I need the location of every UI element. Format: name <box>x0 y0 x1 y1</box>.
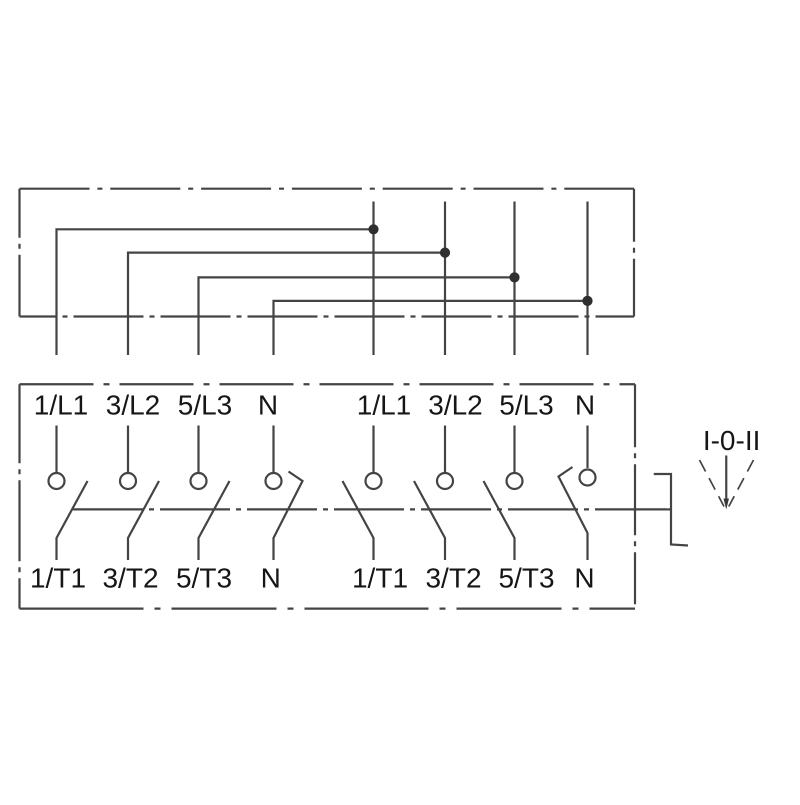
wire drop to pole 5 <box>372 202 374 356</box>
svg-text:3/L2: 3/L2 <box>106 390 161 421</box>
svg-text:5/T3: 5/T3 <box>176 563 232 594</box>
svg-text:I-0-II: I-0-II <box>703 425 761 456</box>
pole 5 terminal 1/L1 lead <box>372 426 374 473</box>
pole 2 blade <box>128 481 159 560</box>
svg-text:N: N <box>258 390 278 421</box>
svg-text:N: N <box>575 390 595 421</box>
pole 3 blade <box>199 481 230 560</box>
switch body box bottom border (dash-dot) <box>20 607 636 609</box>
pole 7 terminal 5/L3 lead <box>513 426 515 473</box>
svg-text:1/T1: 1/T1 <box>30 563 86 594</box>
svg-text:N: N <box>574 563 594 594</box>
pole 5 contact circle <box>366 473 382 489</box>
svg-text:3/T2: 3/T2 <box>425 563 481 594</box>
pole 7 blade <box>484 481 515 560</box>
enclosure box bottom border (dash-dot) <box>20 315 635 317</box>
switch body box right border (dash-dot) <box>634 384 636 608</box>
svg-text:1/L1: 1/L1 <box>357 390 412 421</box>
pole 1 contact circle <box>49 473 65 489</box>
wire drop to pole 8 <box>586 202 588 356</box>
mechanical link line (dash-dot) <box>73 508 665 510</box>
wire L3 (corner at pole 3, horizontal to pole 7) <box>199 277 515 355</box>
enclosure box top border (dash-dot) <box>20 188 635 190</box>
actuator dashed stroke position I <box>700 460 725 507</box>
pole 8 blade with flag <box>559 467 588 560</box>
svg-text:5/L3: 5/L3 <box>499 390 554 421</box>
wire L1 (corner at pole 1, horizontal to pole 5) <box>57 229 374 355</box>
svg-text:5/T3: 5/T3 <box>498 563 554 594</box>
enclosure box left border (dash-dot) <box>18 189 20 317</box>
wire drop to pole 6 <box>444 202 446 356</box>
pole 4 terminal N lead <box>272 426 274 473</box>
wire L2 (corner at pole 2, horizontal to pole 6) <box>128 253 445 355</box>
switch body box top border (dash-dot) <box>20 383 636 385</box>
pole 8 terminal N lead <box>586 426 588 469</box>
handle coupling bracket <box>654 474 688 546</box>
pole 4 blade with flag <box>274 472 303 561</box>
svg-text:5/L3: 5/L3 <box>178 390 233 421</box>
pole 6 contact circle <box>437 473 453 489</box>
mechanical link line end segment <box>664 508 672 510</box>
actuator arrow position 0 (solid, arrowhead) <box>725 456 727 502</box>
pole 5 blade <box>343 481 374 560</box>
switch body box left border (dash-dot) <box>18 384 20 608</box>
svg-text:3/L2: 3/L2 <box>428 390 483 421</box>
pole 6 blade <box>414 481 445 560</box>
pole 8 contact circle <box>580 470 596 486</box>
pole 4 contact circle <box>266 473 282 489</box>
pole 1 blade <box>57 481 88 560</box>
pole 3 contact circle <box>191 473 207 489</box>
wire N (corner at pole 4, horizontal to pole 8) <box>274 301 588 355</box>
pole 2 terminal 3/L2 lead <box>127 426 129 473</box>
wire drop to pole 7 <box>513 202 515 356</box>
junction dot L3/pole7 <box>509 272 519 282</box>
pole 7 contact circle <box>507 473 523 489</box>
svg-text:3/T2: 3/T2 <box>102 563 158 594</box>
junction dot N/pole8 <box>582 296 592 306</box>
pole 3 terminal 5/L3 lead <box>197 426 199 473</box>
actuator dashed stroke position II <box>729 460 754 507</box>
svg-text:1/T1: 1/T1 <box>352 563 408 594</box>
junction dot L1/pole5 <box>368 224 378 234</box>
svg-text:1/L1: 1/L1 <box>34 390 89 421</box>
pole 6 terminal 3/L2 lead <box>444 426 446 473</box>
svg-text:N: N <box>261 563 281 594</box>
pole 2 contact circle <box>120 473 136 489</box>
enclosure box right border (dash-dot) <box>633 189 635 317</box>
junction dot L2/pole6 <box>440 248 450 258</box>
pole 1 terminal 1/L1 lead <box>55 426 57 473</box>
